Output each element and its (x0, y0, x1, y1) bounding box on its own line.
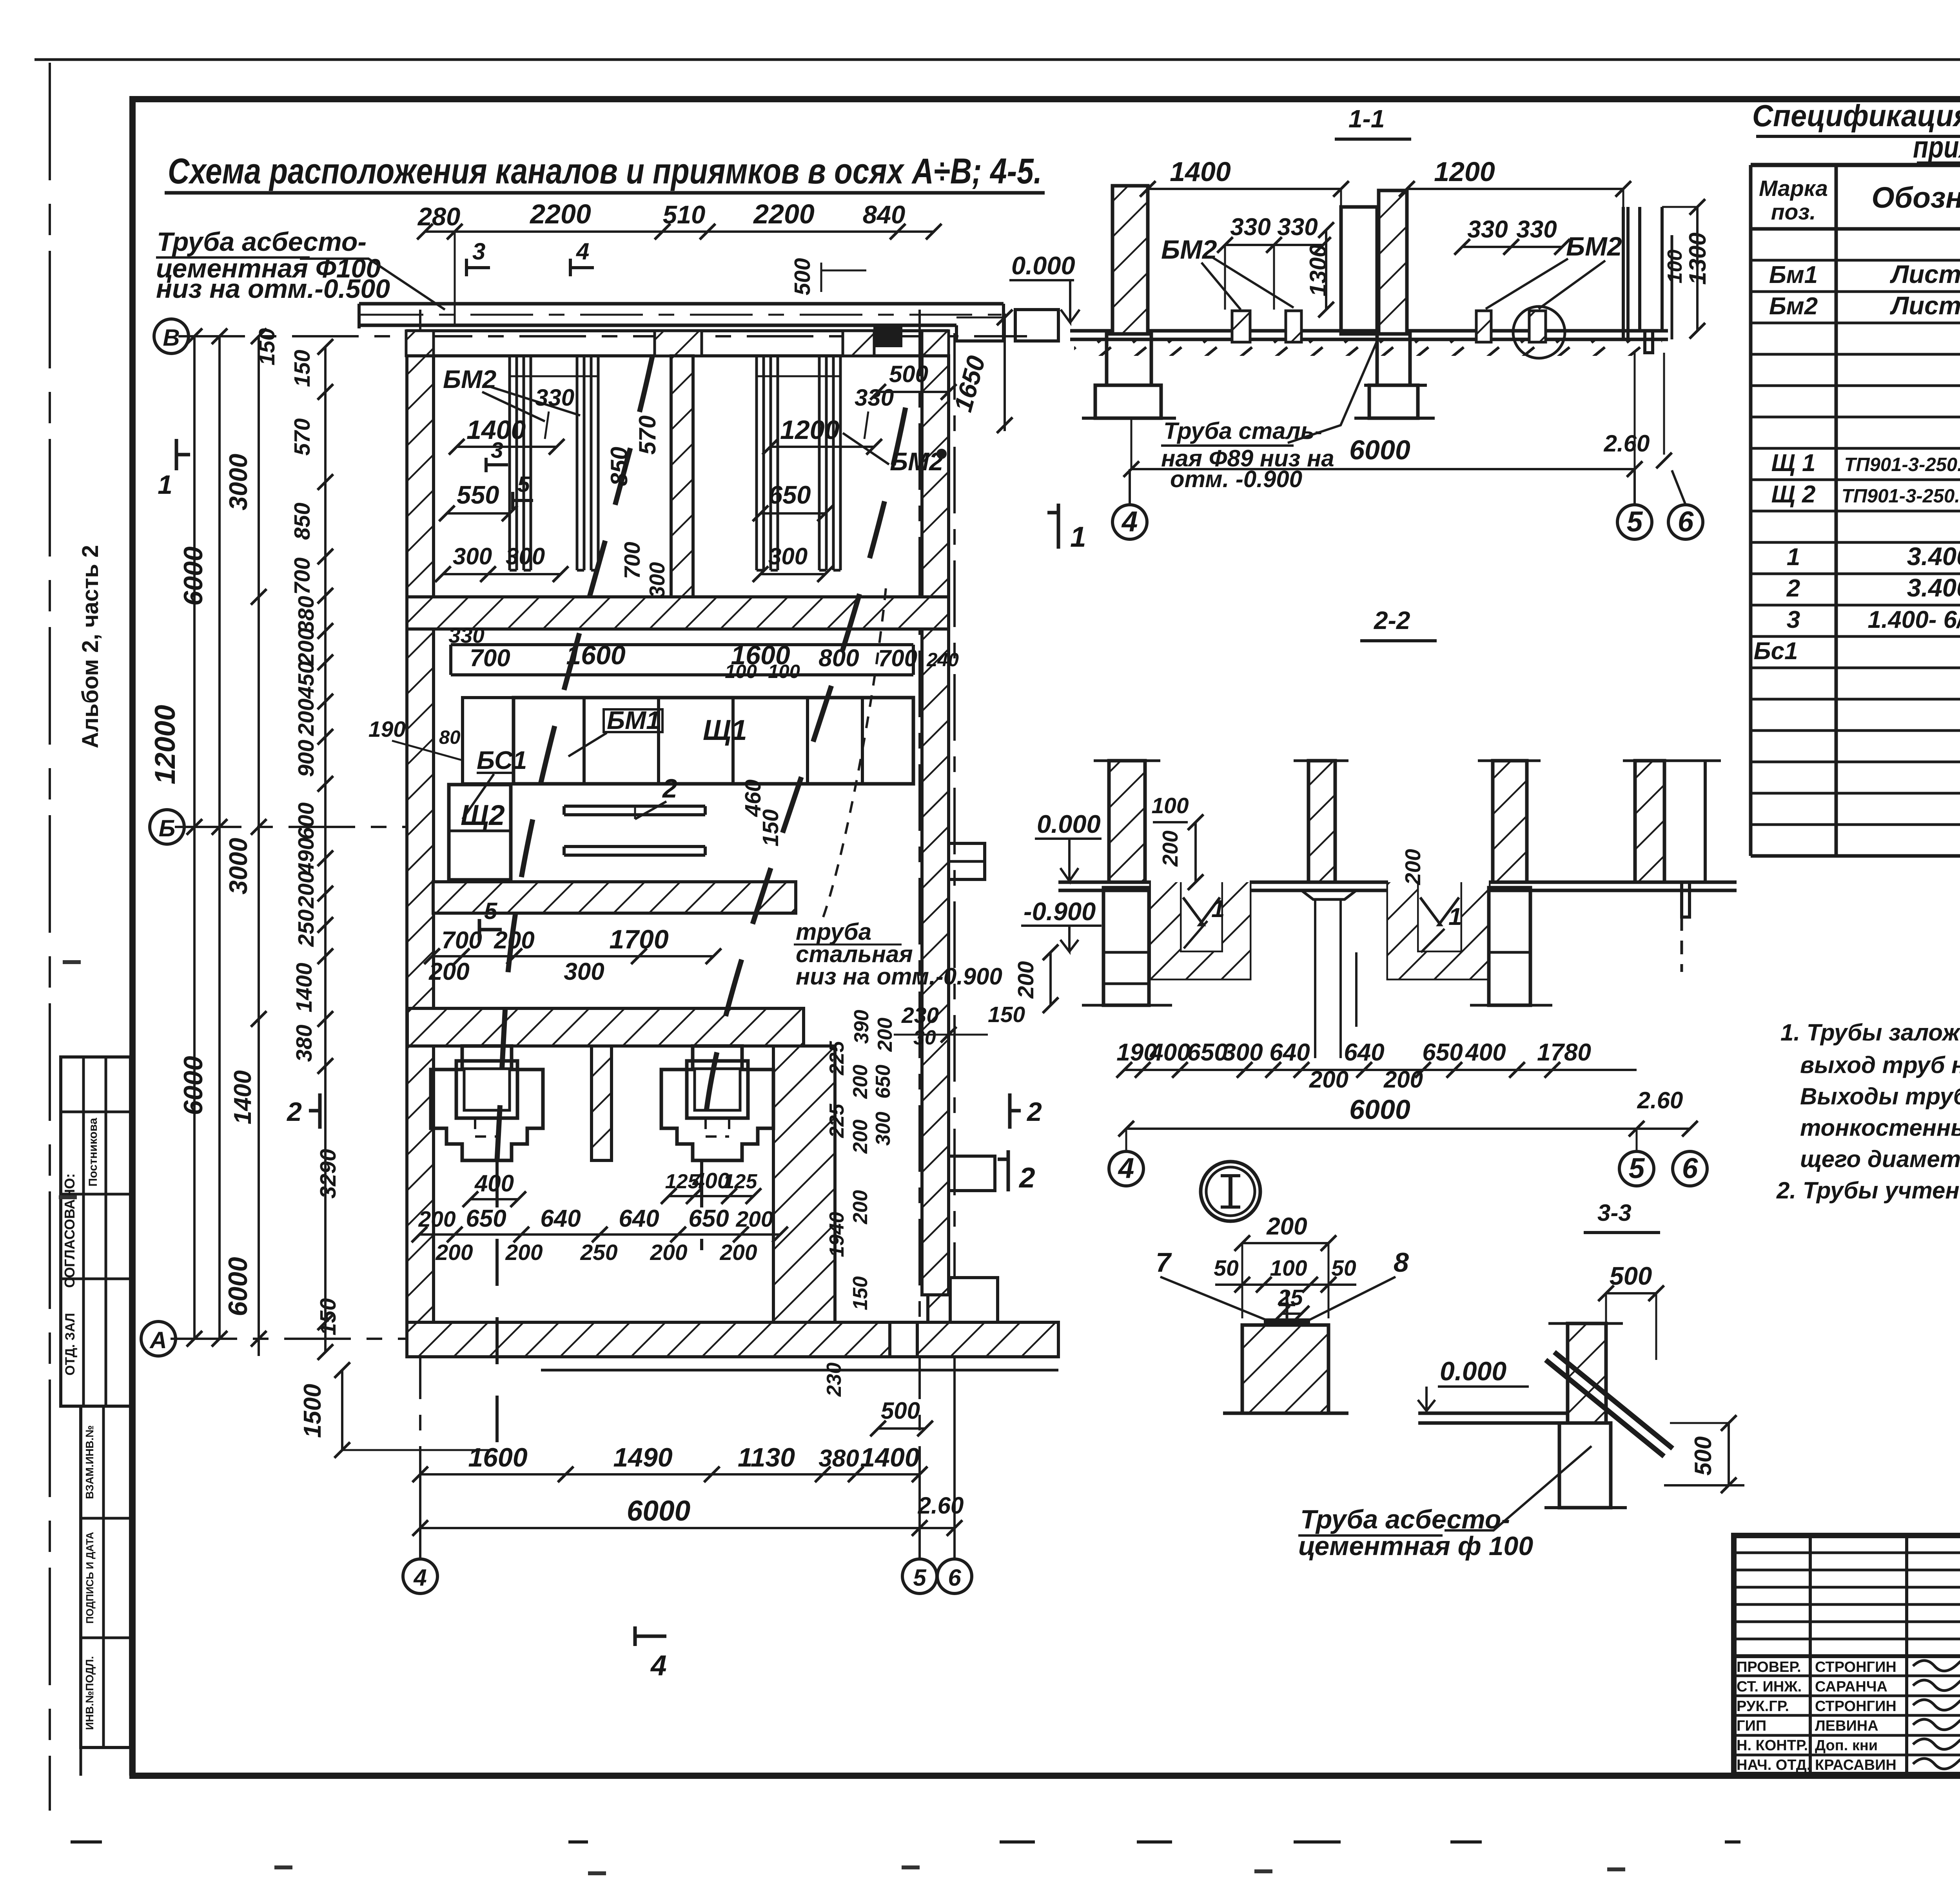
svg-text:2. Трубы учтены на листах марк: 2. Трубы учтены на листах марки ЭМ. (1776, 1177, 1960, 1204)
svg-text:Постникова: Постникова (87, 1118, 100, 1186)
svg-text:300: 300 (645, 562, 669, 598)
svg-text:1130: 1130 (738, 1443, 795, 1472)
svg-text:225: 225 (826, 1104, 848, 1138)
svg-text:ТП901-3-250.88 КЖИ73.0.00: ТП901-3-250.88 КЖИ73.0.00 (1842, 486, 1960, 507)
svg-text:6000: 6000 (223, 1257, 253, 1316)
svg-text:1400: 1400 (292, 963, 317, 1012)
svg-text:6000: 6000 (178, 546, 208, 605)
svg-text:Б: Б (159, 815, 175, 841)
svg-text:1: 1 (1070, 521, 1086, 553)
svg-text:100: 100 (1664, 250, 1686, 284)
svg-text:Щ 2: Щ 2 (1771, 481, 1815, 508)
svg-text:300: 300 (564, 958, 604, 985)
svg-text:570: 570 (634, 415, 661, 455)
svg-text:700: 700 (878, 645, 917, 671)
svg-text:850: 850 (606, 447, 632, 486)
svg-text:150: 150 (988, 1002, 1025, 1027)
svg-text:280: 280 (417, 202, 460, 231)
svg-text:Схема расположения каналов и п: Схема расположения каналов и приямков в … (168, 151, 1042, 191)
svg-text:Выходы труб из пола защитить о: Выходы труб из пола защитить отрезками и… (1800, 1083, 1960, 1109)
svg-text:150: 150 (290, 350, 315, 387)
svg-text:6000: 6000 (1349, 1094, 1410, 1125)
svg-text:СТРОНГИН: СТРОНГИН (1815, 1698, 1896, 1715)
svg-text:650: 650 (1422, 1039, 1463, 1066)
svg-text:200: 200 (735, 1207, 773, 1232)
svg-text:1. Трубы заложить в бетонной п: 1. Трубы заложить в бетонной подготовке … (1780, 1019, 1960, 1046)
svg-text:Обозначение: Обозначение (1871, 181, 1960, 214)
svg-text:400: 400 (1149, 1039, 1190, 1066)
svg-text:3: 3 (472, 238, 485, 265)
svg-text:5: 5 (517, 472, 530, 497)
svg-text:250: 250 (580, 1240, 617, 1265)
svg-text:СОГЛАСОВАНО:: СОГЛАСОВАНО: (62, 1173, 78, 1288)
svg-text:щего диаметра.: щего диаметра. (1800, 1146, 1960, 1172)
svg-text:СТРОНГИН: СТРОНГИН (1815, 1659, 1896, 1675)
svg-text:БС1: БС1 (477, 746, 527, 774)
svg-text:2-2: 2-2 (1374, 606, 1410, 634)
svg-text:4: 4 (1121, 506, 1138, 538)
svg-text:Бм2: Бм2 (1769, 293, 1818, 320)
svg-text:330: 330 (1277, 214, 1318, 241)
svg-text:330: 330 (1230, 214, 1270, 241)
svg-text:400: 400 (1465, 1039, 1506, 1066)
svg-text:6000: 6000 (1349, 435, 1410, 465)
svg-text:400: 400 (474, 1170, 514, 1196)
svg-text:4: 4 (576, 238, 589, 265)
svg-text:200: 200 (1383, 1066, 1423, 1093)
svg-text:200: 200 (294, 628, 319, 665)
svg-text:3.400-6/76: 3.400-6/76 (1907, 573, 1960, 602)
svg-text:100: 100 (1270, 1256, 1307, 1281)
svg-text:200: 200 (418, 1207, 456, 1232)
svg-text:5: 5 (1627, 506, 1643, 538)
svg-text:700: 700 (441, 927, 482, 954)
svg-text:6000: 6000 (178, 1056, 208, 1115)
svg-text:3000: 3000 (224, 454, 252, 511)
svg-text:3: 3 (1787, 606, 1800, 633)
svg-text:450: 450 (294, 661, 319, 699)
svg-text:3290: 3290 (316, 1149, 341, 1198)
svg-text:200: 200 (1401, 849, 1425, 885)
svg-text:700: 700 (620, 542, 645, 579)
svg-text:230: 230 (823, 1363, 846, 1397)
svg-text:390: 390 (850, 1010, 873, 1044)
svg-text:80: 80 (439, 727, 461, 748)
svg-text:В: В (163, 324, 180, 351)
svg-text:6000: 6000 (627, 1495, 690, 1527)
svg-text:1500: 1500 (299, 1384, 326, 1438)
svg-text:150: 150 (849, 1276, 872, 1311)
svg-text:ОТД. ЗАЛ: ОТД. ЗАЛ (63, 1313, 78, 1376)
svg-text:640: 640 (1269, 1039, 1310, 1066)
svg-text:СТ. ИНЖ.: СТ. ИНЖ. (1737, 1679, 1802, 1695)
svg-text:200: 200 (1266, 1213, 1307, 1240)
svg-text:200: 200 (849, 1190, 872, 1225)
svg-text:0.000: 0.000 (1011, 251, 1075, 280)
svg-text:3000: 3000 (224, 838, 252, 895)
svg-text:650: 650 (1187, 1039, 1227, 1066)
svg-text:300: 300 (506, 543, 545, 569)
svg-text:1: 1 (158, 470, 172, 500)
svg-text:2: 2 (1786, 575, 1800, 602)
svg-text:2200: 2200 (753, 199, 815, 229)
svg-text:650: 650 (466, 1205, 506, 1232)
svg-text:150: 150 (254, 328, 279, 365)
svg-text:100: 100 (768, 661, 800, 682)
svg-text:250: 250 (294, 909, 319, 947)
svg-text:200: 200 (719, 1240, 757, 1265)
svg-text:1490: 1490 (613, 1443, 672, 1472)
svg-text:200: 200 (294, 698, 319, 736)
svg-text:640: 640 (540, 1205, 581, 1232)
svg-text:650: 650 (768, 480, 811, 509)
svg-text:30: 30 (913, 1026, 936, 1049)
svg-text:330: 330 (1516, 216, 1557, 243)
svg-text:190: 190 (368, 717, 406, 742)
svg-text:700: 700 (290, 557, 315, 595)
svg-text:1940: 1940 (826, 1212, 848, 1257)
svg-text:5: 5 (913, 1564, 927, 1591)
svg-text:240: 240 (926, 649, 959, 671)
svg-text:230: 230 (901, 1003, 939, 1028)
svg-text:4: 4 (413, 1564, 426, 1591)
svg-text:300: 300 (1222, 1039, 1263, 1066)
svg-text:2.60: 2.60 (1637, 1087, 1683, 1113)
svg-text:50: 50 (1214, 1256, 1239, 1281)
svg-text:Спецификация к схеме расположе: Спецификация к схеме расположения канало… (1752, 98, 1960, 133)
svg-text:2200: 2200 (529, 199, 591, 229)
svg-text:330: 330 (1467, 216, 1508, 243)
svg-text:200: 200 (1013, 961, 1038, 999)
svg-text:выход труб над чистым полом ра: выход труб над чистым полом равен 200мм. (1800, 1052, 1960, 1078)
svg-text:7: 7 (1156, 1247, 1172, 1278)
svg-text:1400: 1400 (860, 1443, 919, 1472)
svg-text:1400: 1400 (1170, 156, 1231, 187)
svg-text:25: 25 (1278, 1285, 1303, 1310)
svg-text:2: 2 (286, 1097, 302, 1127)
svg-text:200: 200 (849, 1065, 872, 1099)
svg-text:650: 650 (688, 1205, 729, 1232)
svg-text:Щ1: Щ1 (703, 714, 747, 746)
svg-text:5: 5 (1629, 1153, 1645, 1184)
svg-text:800: 800 (818, 645, 859, 672)
svg-text:380: 380 (294, 596, 319, 633)
svg-text:1200: 1200 (780, 415, 839, 445)
svg-text:БМ2: БМ2 (1161, 235, 1217, 265)
svg-text:200: 200 (874, 1018, 897, 1052)
svg-text:300: 300 (768, 543, 808, 569)
svg-text:Альбом 2, часть 2: Альбом 2, часть 2 (78, 545, 103, 749)
svg-text:ЛЕВИНА: ЛЕВИНА (1815, 1718, 1878, 1734)
svg-text:1: 1 (1787, 544, 1800, 571)
svg-text:КРАСАВИН: КРАСАВИН (1815, 1757, 1896, 1773)
svg-text:500: 500 (881, 1398, 920, 1424)
svg-text:Н. КОНТР.: Н. КОНТР. (1737, 1737, 1808, 1754)
svg-text:1.400- 6/76 вып.1: 1.400- 6/76 вып.1 (1868, 606, 1960, 633)
svg-text:1-1: 1-1 (1348, 105, 1385, 133)
svg-text:тонкостенных стальных труб соо: тонкостенных стальных труб соответствую- (1800, 1115, 1960, 1141)
svg-text:500: 500 (790, 258, 815, 295)
svg-text:640: 640 (1344, 1039, 1384, 1066)
svg-text:2.60: 2.60 (1604, 430, 1650, 457)
svg-text:6: 6 (1678, 506, 1694, 538)
svg-text:850: 850 (290, 502, 315, 540)
svg-text:САРАНЧА: САРАНЧА (1815, 1679, 1887, 1695)
svg-text:НАЧ. ОТД.: НАЧ. ОТД. (1737, 1757, 1811, 1773)
svg-text:2: 2 (1026, 1097, 1042, 1127)
svg-text:300: 300 (872, 1112, 895, 1146)
svg-text:840: 840 (863, 200, 905, 229)
svg-text:0.000: 0.000 (1440, 1356, 1506, 1386)
svg-text:Щ2: Щ2 (461, 799, 505, 831)
svg-text:3.400-6/76: 3.400-6/76 (1907, 542, 1960, 571)
svg-text:БМ2: БМ2 (890, 447, 943, 476)
svg-text:1600: 1600 (468, 1443, 527, 1472)
svg-text:1: 1 (1211, 896, 1225, 923)
svg-text:цементная ф 100: цементная ф 100 (1298, 1531, 1533, 1561)
svg-text:А: А (149, 1327, 167, 1353)
svg-text:ИНВ.№ПОДЛ.: ИНВ.№ПОДЛ. (83, 1656, 96, 1730)
svg-text:125: 125 (723, 1170, 758, 1193)
svg-text:ВЗАМ.ИНВ.№: ВЗАМ.ИНВ.№ (83, 1425, 96, 1499)
svg-text:Труба асбесто-: Труба асбесто- (157, 227, 367, 257)
svg-text:4: 4 (1118, 1153, 1134, 1184)
svg-text:8: 8 (1394, 1247, 1409, 1278)
svg-text:570: 570 (290, 418, 315, 455)
svg-text:Лист КЖ-24: Лист КЖ-24 (1890, 291, 1960, 320)
svg-text:200: 200 (849, 1120, 872, 1154)
svg-text:200: 200 (294, 871, 319, 908)
svg-text:1: 1 (1448, 903, 1462, 930)
svg-text:500: 500 (1690, 1436, 1716, 1476)
svg-text:БМ2: БМ2 (1566, 232, 1622, 261)
svg-text:1400: 1400 (466, 415, 526, 445)
svg-text:Марка: Марка (1759, 176, 1828, 201)
svg-text:100: 100 (1151, 793, 1189, 818)
svg-text:Бс1: Бс1 (1754, 638, 1798, 665)
svg-text:2: 2 (1018, 1162, 1035, 1194)
svg-text:РУК.ГР.: РУК.ГР. (1737, 1698, 1789, 1715)
svg-text:900: 900 (294, 740, 319, 777)
svg-text:Лист КЖ-24: Лист КЖ-24 (1890, 260, 1960, 288)
svg-text:200: 200 (1309, 1066, 1348, 1093)
svg-text:4: 4 (650, 1650, 667, 1682)
svg-text:510: 510 (663, 200, 705, 229)
svg-text:1700: 1700 (609, 925, 668, 954)
svg-text:2.60: 2.60 (918, 1492, 964, 1519)
svg-text:200: 200 (1158, 830, 1182, 867)
svg-text:Доп. кни: Доп. кни (1815, 1737, 1878, 1754)
svg-text:3-3: 3-3 (1597, 1200, 1632, 1226)
svg-text:0.000: 0.000 (1037, 810, 1101, 838)
svg-text:100: 100 (725, 661, 757, 682)
svg-text:500: 500 (889, 361, 928, 387)
svg-text:Щ 1: Щ 1 (1771, 450, 1815, 477)
svg-text:200: 200 (428, 958, 469, 985)
svg-text:200: 200 (435, 1240, 473, 1265)
svg-text:-0.900: -0.900 (1024, 897, 1096, 926)
svg-text:1400: 1400 (229, 1070, 256, 1124)
svg-text:550: 550 (457, 480, 499, 509)
svg-text:2: 2 (662, 774, 677, 803)
svg-text:поз.: поз. (1771, 199, 1816, 225)
svg-text:12000: 12000 (149, 705, 181, 785)
svg-text:640: 640 (619, 1205, 659, 1232)
svg-text:330: 330 (535, 384, 574, 411)
svg-text:330: 330 (448, 623, 485, 647)
svg-text:200: 200 (505, 1240, 543, 1265)
svg-text:700: 700 (470, 645, 510, 672)
svg-text:225: 225 (826, 1041, 848, 1076)
svg-text:1200: 1200 (1434, 156, 1495, 187)
svg-text:ПОДПИСЬ И ДАТА: ПОДПИСЬ И ДАТА (84, 1532, 96, 1624)
svg-text:490: 490 (294, 838, 319, 875)
svg-text:600: 600 (294, 802, 319, 839)
svg-text:500: 500 (1610, 1262, 1652, 1290)
svg-text:6: 6 (948, 1564, 961, 1591)
svg-text:300: 300 (453, 543, 492, 569)
svg-text:БМ2: БМ2 (443, 365, 496, 393)
svg-text:6: 6 (1682, 1153, 1698, 1184)
svg-text:150: 150 (758, 809, 783, 847)
svg-text:1780: 1780 (1537, 1039, 1591, 1066)
svg-text:380: 380 (292, 1024, 317, 1062)
svg-text:Бм1: Бм1 (1769, 261, 1818, 288)
svg-text:5: 5 (484, 898, 498, 924)
svg-text:200: 200 (650, 1240, 687, 1265)
svg-text:низ на отм.-0.900: низ на отм.-0.900 (796, 963, 1002, 990)
svg-text:ПРОВЕР.: ПРОВЕР. (1737, 1659, 1801, 1675)
svg-text:650: 650 (872, 1065, 895, 1099)
svg-text:низ на отм.-0.500: низ на отм.-0.500 (156, 274, 390, 304)
svg-text:ТП901-3-250.88 КЖИ73.000: ТП901-3-250.88 КЖИ73.000 (1844, 454, 1960, 475)
svg-text:380: 380 (818, 1445, 859, 1472)
svg-text:ГИП: ГИП (1737, 1718, 1766, 1734)
